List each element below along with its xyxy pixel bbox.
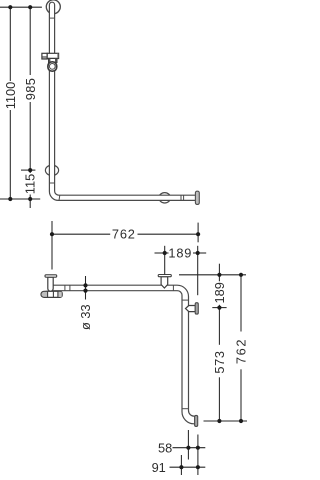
svg-text:115: 115 [23, 174, 38, 194]
svg-text:91: 91 [152, 460, 166, 475]
svg-text:189: 189 [212, 282, 227, 303]
svg-text:58: 58 [158, 440, 172, 455]
svg-text:189: 189 [168, 246, 192, 261]
svg-text:762: 762 [112, 227, 136, 242]
svg-text:573: 573 [212, 350, 227, 373]
svg-text:1100: 1100 [3, 82, 18, 110]
svg-text:762: 762 [234, 338, 249, 364]
svg-text:985: 985 [23, 78, 38, 101]
svg-text:ø 33: ø 33 [78, 304, 93, 330]
